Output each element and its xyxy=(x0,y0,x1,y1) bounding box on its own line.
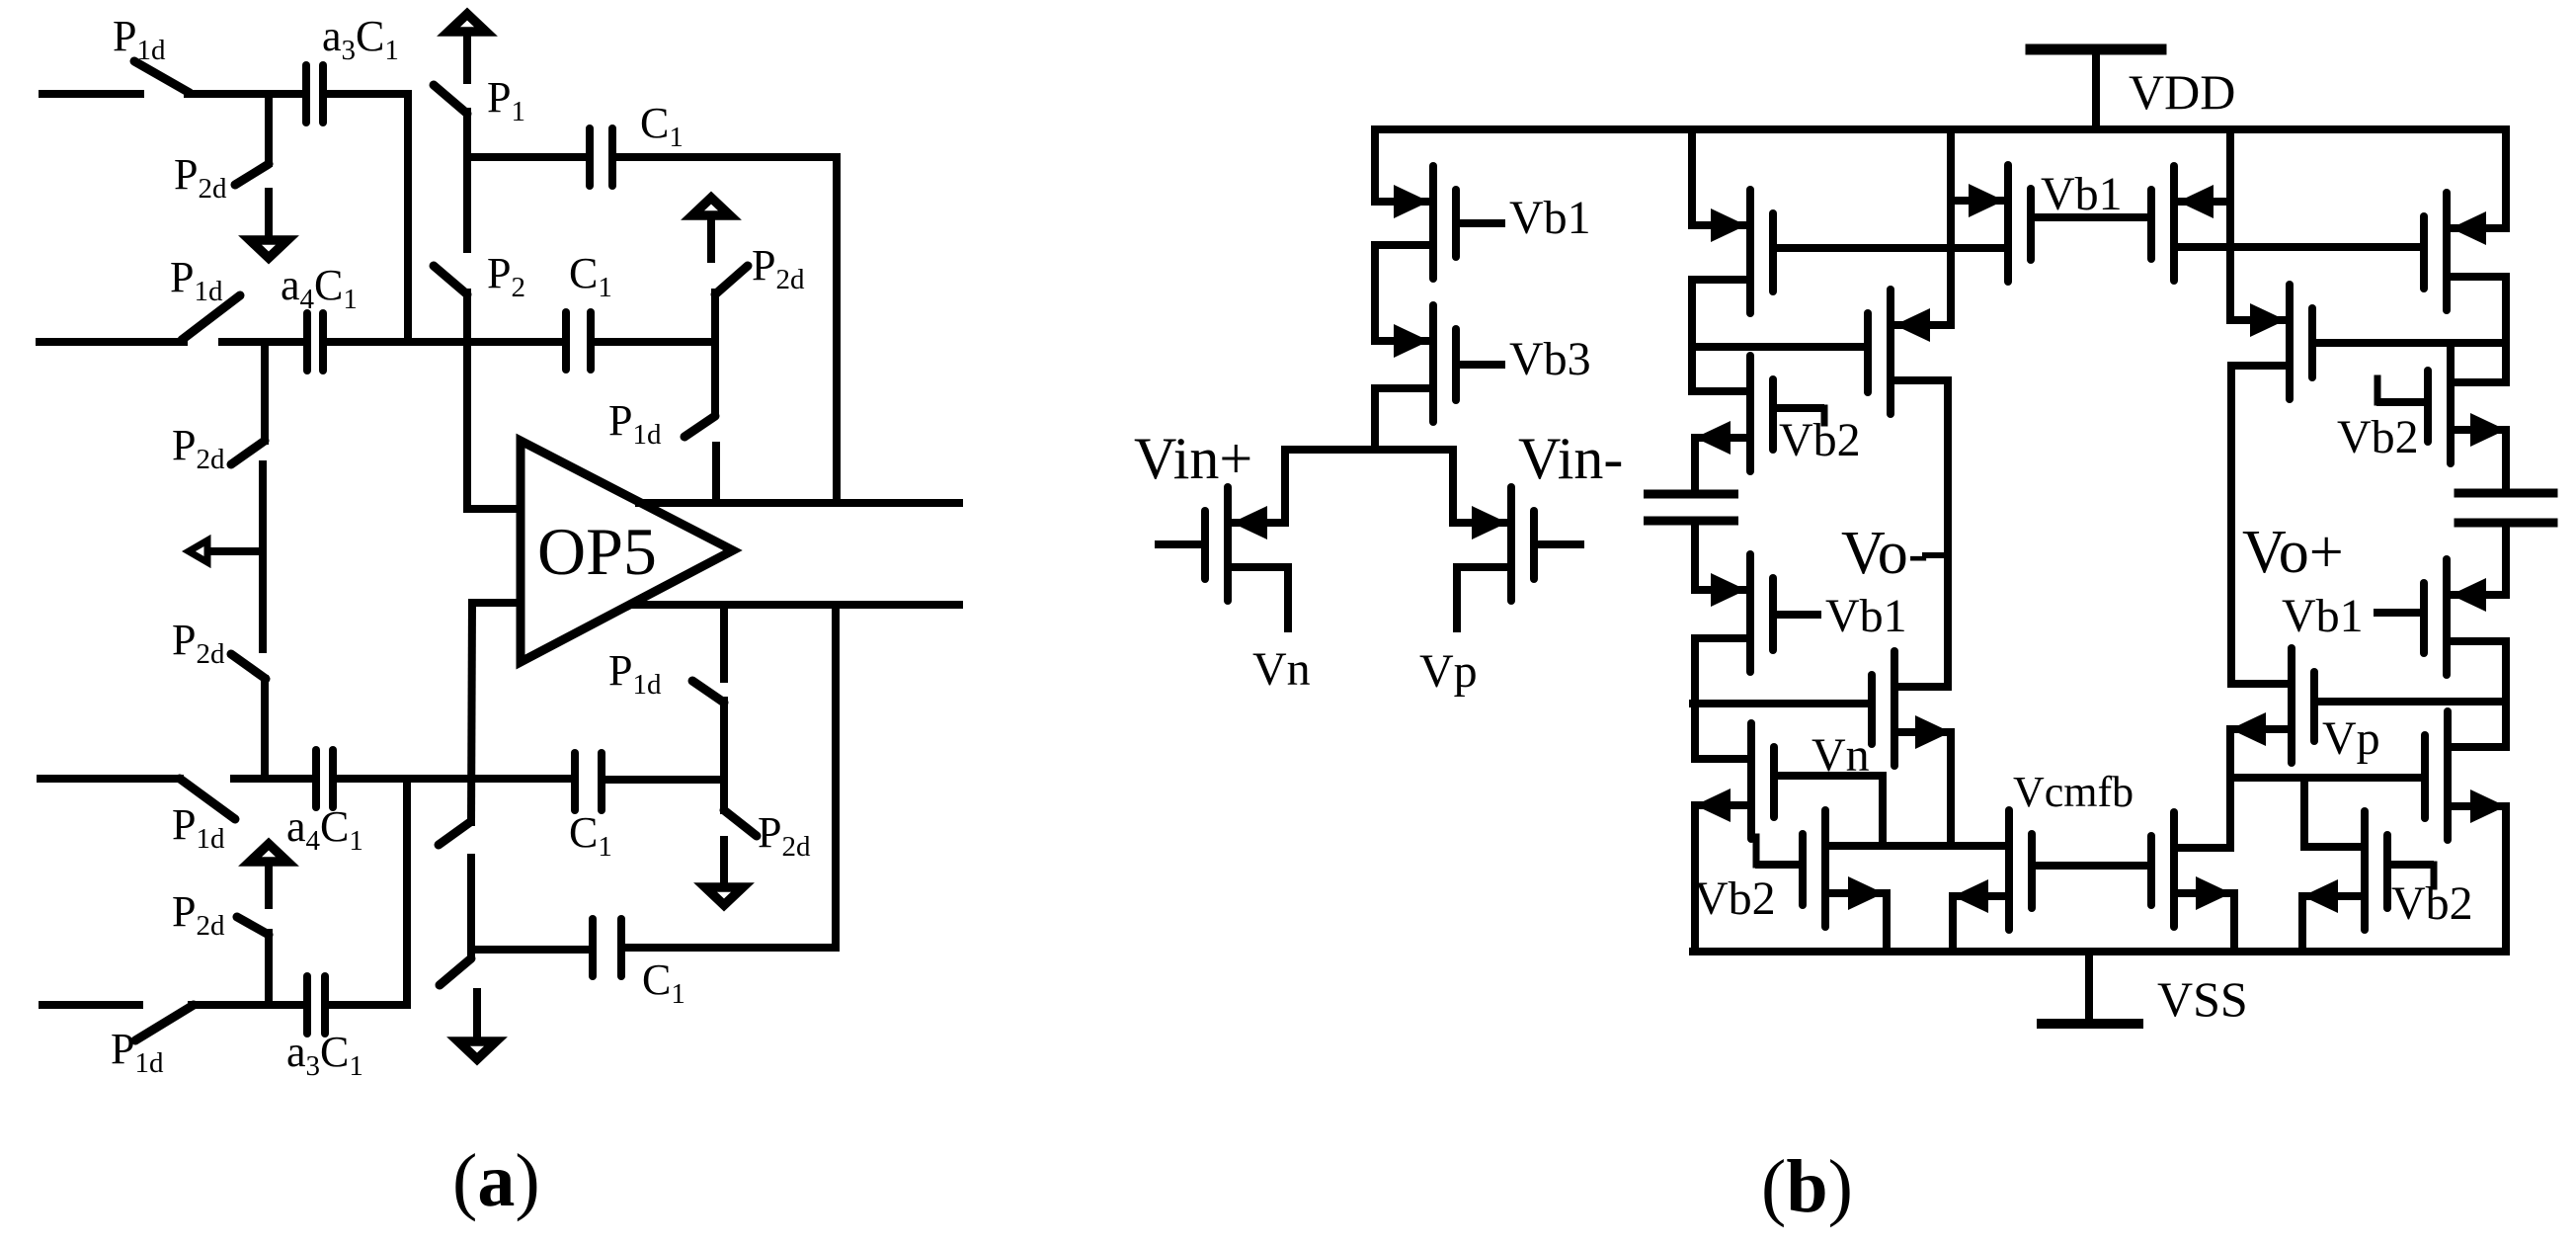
wire output upper xyxy=(639,499,959,507)
svg-text:OP5: OP5 xyxy=(537,514,657,589)
wire M17 to M19 xyxy=(2502,641,2510,747)
wire M7 to capacitor xyxy=(1691,438,1699,494)
wire capacitor to M17 xyxy=(2502,523,2510,595)
transistor M11 (Vb2 left) xyxy=(1821,810,1829,927)
switch P1d feedback-lower blade xyxy=(692,681,724,703)
wire right bus upper xyxy=(833,157,841,503)
wire Vn node xyxy=(1825,842,2009,850)
wire P2 column to opamp input xyxy=(463,292,471,509)
ground arrow down lower column xyxy=(473,988,481,1038)
wire M10 source down xyxy=(1947,732,1955,846)
svg-text:Vn: Vn xyxy=(1811,729,1870,782)
transistor M9 xyxy=(1747,723,1755,839)
transistor M3 xyxy=(1746,190,1754,313)
wire M8 to M9 xyxy=(1691,638,1699,759)
switch P1 blade xyxy=(434,85,467,114)
capacitor a4C1 row3 xyxy=(312,750,320,807)
tick Vb2 M11 xyxy=(1753,837,1760,865)
wire M20 source to rail xyxy=(2298,896,2306,952)
svg-text:Vcmfb: Vcmfb xyxy=(2013,768,2133,816)
svg-text:Vo+: Vo+ xyxy=(2242,519,2344,586)
wire M18 gate lead xyxy=(2316,698,2506,705)
reference arrow down row1 xyxy=(265,188,273,237)
svg-text:Vn: Vn xyxy=(1252,643,1311,696)
switch P2d mid-lower blade xyxy=(231,654,266,679)
power VDD symbol xyxy=(2031,44,2161,55)
reference arrow up P1 column xyxy=(463,35,471,84)
wire M2 to tail xyxy=(1371,388,1379,450)
transistor M8 (Vb1 left low) xyxy=(1746,554,1754,672)
power VSS symbol xyxy=(2085,952,2093,1022)
wire Vp node right xyxy=(2304,843,2365,851)
ground arrow down bottom switch xyxy=(720,836,728,884)
switch P1d row4 blade xyxy=(135,1005,194,1040)
transistor M19 xyxy=(2444,711,2452,840)
wire M10 gate lead xyxy=(1693,700,1865,707)
wire M1 to M2 xyxy=(1371,245,1379,341)
wire M6 to Vo- node xyxy=(1944,380,1952,687)
svg-text:Vb1: Vb1 xyxy=(1825,590,1907,642)
capacitor right CL xyxy=(2455,489,2558,498)
switch P1d row1 blade xyxy=(134,61,190,93)
transistor M6 (cascode upper-left) xyxy=(1887,290,1894,414)
wire capacitor to M8 xyxy=(1691,521,1699,590)
wire input1 top-left xyxy=(42,90,140,98)
svg-text:Vb2: Vb2 xyxy=(1779,414,1861,466)
svg-text:Vb1: Vb1 xyxy=(2282,590,2364,642)
wire M3 to M6-gate to M7 xyxy=(1688,280,1696,391)
wire rail to M1 xyxy=(1371,129,1379,202)
wire M21 source to rail xyxy=(2230,893,2238,952)
wire Vp gate drop xyxy=(2300,778,2308,847)
wire row2 resumed xyxy=(222,338,304,346)
wire opamp lower input xyxy=(472,599,521,607)
node row2 junction vertical xyxy=(261,342,269,441)
switch P2d bottom blade xyxy=(724,810,757,836)
capacitor C1 row2 xyxy=(562,312,570,370)
wire M3 gate / M4 source xyxy=(1777,244,2008,252)
wire M16 to capacitor xyxy=(2502,430,2510,493)
switch P2 blade xyxy=(434,266,467,294)
wire right bus lower xyxy=(832,605,840,948)
wire rail to M3 xyxy=(1688,129,1696,225)
wire mid vertical lower xyxy=(261,679,269,779)
wire M13 source stub xyxy=(1453,567,1461,628)
reference arrow up row4 node xyxy=(265,865,273,909)
svg-text:Vb3: Vb3 xyxy=(1509,333,1591,385)
wire M14 to M16 xyxy=(2502,277,2510,382)
wire lower column segment xyxy=(467,858,475,956)
wire P1d to output xyxy=(712,446,720,503)
transistor M1 (Vb1) xyxy=(1429,166,1437,279)
transistor M17 (Vb1 right) xyxy=(2443,559,2451,675)
svg-text:VDD: VDD xyxy=(2129,64,2235,120)
wire output lower xyxy=(633,601,959,609)
switch P1d row2 blade xyxy=(182,295,240,340)
svg-text:Vb1: Vb1 xyxy=(2041,168,2123,220)
svg-text:(a): (a) xyxy=(452,1139,540,1222)
wire tail left down xyxy=(1281,450,1289,523)
wire Vcmfb gate lead xyxy=(2035,862,2149,870)
transistor M10 (cascode lower-left) xyxy=(1891,651,1898,766)
transistor M20 (Vb2 bottom-right) xyxy=(2361,811,2369,930)
wire top C1 to bus corner xyxy=(616,153,837,161)
wire VSS rail xyxy=(1693,948,2506,955)
wire M12 source stub xyxy=(1284,567,1292,628)
svg-text:Vb2: Vb2 xyxy=(1694,872,1776,925)
svg-text:Vb2: Vb2 xyxy=(2337,411,2419,463)
transistor M18 xyxy=(2288,648,2295,763)
reference arrow up P2d upper-right xyxy=(707,218,715,263)
transistor M2 (Vb3) xyxy=(1429,305,1437,422)
wire to top C1 xyxy=(467,153,588,161)
wire tail node xyxy=(1285,446,1453,454)
wire bottom C1 to bus corner xyxy=(625,944,836,952)
wire input4 row4 xyxy=(42,1001,139,1009)
wire M19 source to rail xyxy=(2502,806,2510,952)
wire input2 xyxy=(40,338,184,346)
transistor M14 (cascode upper-right) xyxy=(2443,193,2451,310)
capacitor C1 top xyxy=(586,128,594,186)
transistor M7 (Vb2-bar) xyxy=(1746,356,1754,471)
wire Vo+ node vertical xyxy=(2227,366,2235,684)
wire opamp upper input xyxy=(467,505,521,513)
wire lower input column xyxy=(471,603,472,822)
switch P2d upper-right blade xyxy=(715,266,748,294)
transistor M22 (Vcmfb left) xyxy=(2005,810,2013,930)
wire VDD drop x2258 xyxy=(2226,129,2234,320)
transistor M15 xyxy=(2286,285,2294,399)
wire P1d lower to node xyxy=(720,701,728,810)
wire rail corner to M14 xyxy=(2502,129,2510,228)
wire Vb1 pair gate lead xyxy=(2035,213,2149,221)
switch P2d mid-upper blade xyxy=(231,441,265,464)
wire M22 source to rail xyxy=(1949,896,1957,952)
svg-text:Vin-: Vin- xyxy=(1518,426,1623,491)
wire M9 source to rail xyxy=(1691,805,1699,952)
wire tail right down xyxy=(1449,450,1457,523)
svg-text:(b): (b) xyxy=(1761,1145,1853,1228)
svg-text:Vb1: Vb1 xyxy=(1509,192,1591,244)
capacitor a4C1 row2 xyxy=(303,313,311,371)
transistor M16 (Vb2 right) xyxy=(2447,347,2455,463)
wire M11 source to rail xyxy=(1883,893,1891,952)
wire P1 column vertical xyxy=(463,112,471,249)
switch P2d row1 blade xyxy=(235,164,269,185)
switch P2d row4 blade xyxy=(237,917,269,935)
capacitor left CL xyxy=(1644,490,1738,499)
tick Vb2 M20 xyxy=(2431,865,2438,886)
switch lower column blade1 xyxy=(439,822,470,845)
wire P1d feedback-lower vertical xyxy=(720,609,728,679)
wire row3 to C1 xyxy=(338,775,573,783)
switch P1d row3 blade xyxy=(180,779,235,819)
svg-text:Vp: Vp xyxy=(2322,712,2380,765)
svg-text:VSS: VSS xyxy=(2157,971,2248,1027)
wire C1 row2 to switch node xyxy=(595,338,713,346)
wire P2d row4 to node xyxy=(265,933,273,1005)
svg-text:Vp: Vp xyxy=(1419,645,1478,698)
tick Vb2 M16 xyxy=(2375,378,2381,402)
wire P2d to row2 node xyxy=(711,292,719,342)
capacitor a3C1 row1 xyxy=(302,65,310,123)
transistor M4 (Vb1 pair left) xyxy=(2004,165,2012,282)
capacitor C1 bottom-right xyxy=(589,919,597,976)
wire M19 gate lead xyxy=(2230,774,2421,782)
transistor M21 (Vcmfb right) xyxy=(2170,812,2178,927)
svg-text:Vo-: Vo- xyxy=(1841,520,1928,587)
capacitor C1 bottom-middle xyxy=(571,753,579,810)
wire corner row3-row4 xyxy=(403,779,411,1005)
wire a3C1 to corner xyxy=(327,90,408,98)
transistor M12 (Vin+) xyxy=(1224,487,1232,601)
capacitor a3C1 row4 xyxy=(303,976,311,1034)
node row1 junction vertical xyxy=(265,94,273,163)
wire node down to P1d switch xyxy=(711,342,719,413)
wire bottom-middle C1 to node xyxy=(605,776,724,784)
wire VDD drop x1975 xyxy=(1947,129,1955,325)
wire row2 cap to C1 xyxy=(327,338,564,346)
wire M18 source down to Vp xyxy=(2226,729,2234,848)
svg-text:Vb2: Vb2 xyxy=(2391,877,2473,930)
wire mid vertical xyxy=(259,464,267,649)
wire row4 resumed xyxy=(192,1001,305,1009)
wire row1 to cap xyxy=(188,90,302,98)
wire Vn gate drop xyxy=(1879,776,1887,846)
transistor M5 (Vb1 pair right) xyxy=(2170,166,2178,281)
switch P1d feedback-upper blade xyxy=(684,416,715,437)
transistor M13 (Vin-) xyxy=(1507,487,1515,601)
tick Vb2-bar xyxy=(1821,408,1828,423)
wire VDD rail xyxy=(1375,125,2506,133)
wire to bottom-right C1 xyxy=(471,946,591,954)
wire input3 row3 xyxy=(40,775,180,783)
switch lower column blade2 xyxy=(440,958,471,985)
wire corner down to row2 xyxy=(404,94,412,342)
wire row4 cap to corner xyxy=(329,1001,407,1009)
svg-text:Vin+: Vin+ xyxy=(1134,426,1252,491)
reference arrow left mid xyxy=(210,547,263,555)
wire row3 resumed xyxy=(234,775,314,783)
op-amp OP5 triangle xyxy=(521,441,733,662)
